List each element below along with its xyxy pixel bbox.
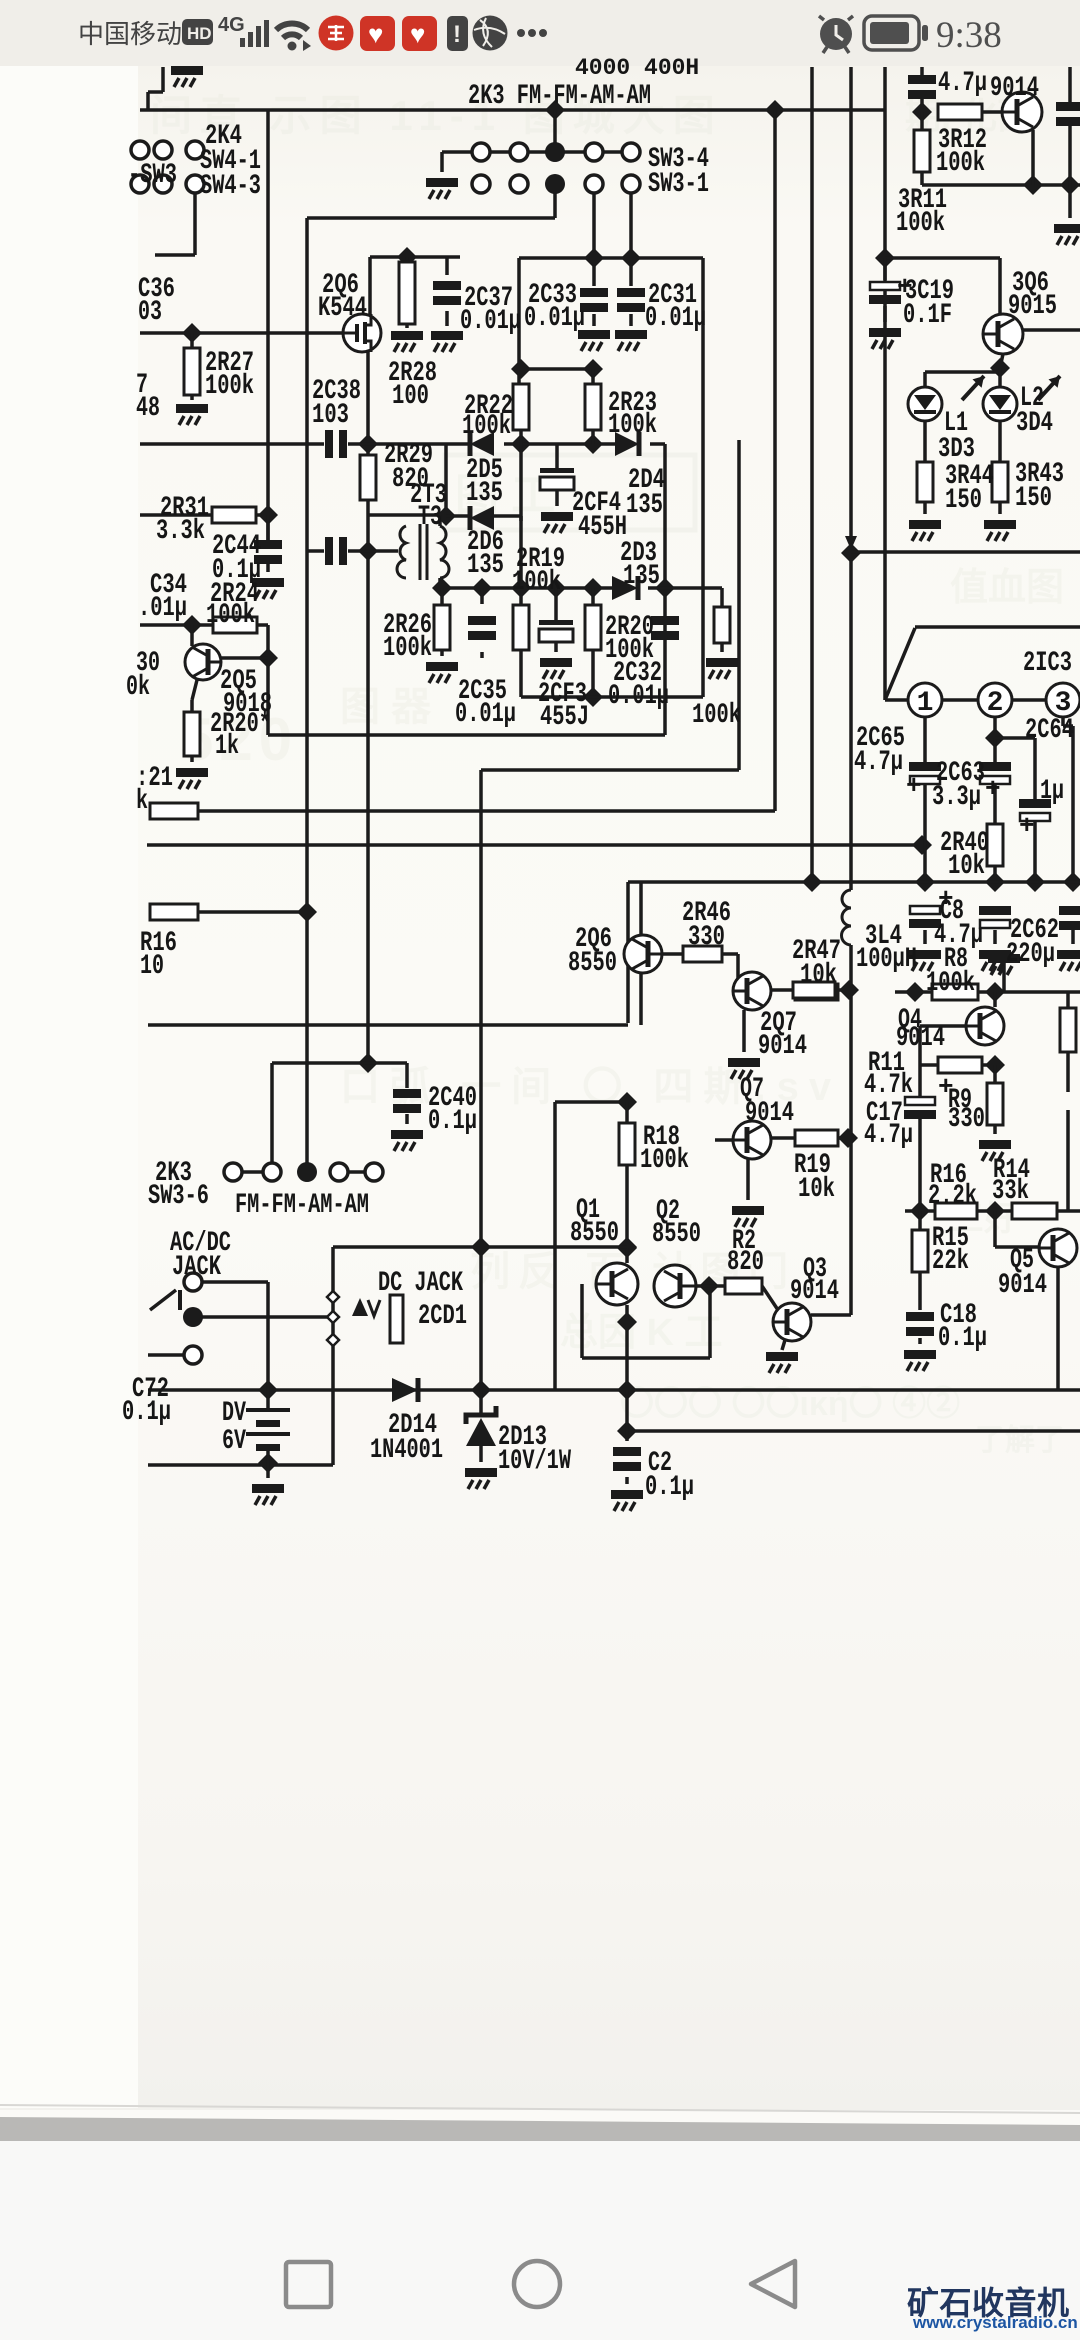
svg-text:!: ! bbox=[453, 21, 461, 48]
svg-text:中国移动: 中国移动 bbox=[78, 19, 182, 49]
svg-text:4G: 4G bbox=[218, 14, 245, 36]
svg-text:HD: HD bbox=[187, 24, 212, 43]
svg-text:♥: ♥ bbox=[410, 19, 425, 49]
svg-text:♥: ♥ bbox=[368, 19, 383, 49]
svg-text:9:38: 9:38 bbox=[936, 15, 1002, 56]
